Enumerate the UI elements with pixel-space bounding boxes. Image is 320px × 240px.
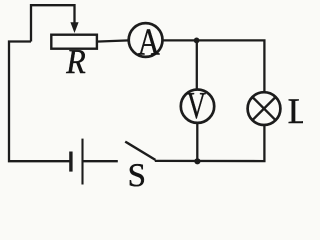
wire voltmeter top lead <box>196 40 198 89</box>
wiper arrow of rheostat R <box>70 22 78 33</box>
battery negative plate (short thick) <box>69 152 72 172</box>
svg-text:A: A <box>138 22 161 64</box>
wire switch to bottom-right corner and up to lamp <box>155 125 265 161</box>
svg-text:V: V <box>187 85 207 127</box>
battery positive plate (long thin) <box>81 139 83 185</box>
voltmeter V <box>181 90 214 123</box>
svg-text:L: L <box>288 91 303 131</box>
wire battery to switch contact <box>84 160 118 162</box>
ammeter A <box>129 23 163 57</box>
wire wiper arm (left branch up and over to rheostat slider) <box>31 5 75 41</box>
svg-text:R: R <box>65 42 85 81</box>
wire rheostat to ammeter <box>96 40 129 41</box>
junction node top (voltmeter tap) <box>194 38 200 44</box>
lamp L <box>248 92 281 125</box>
wire voltmeter bottom lead <box>196 123 198 161</box>
resistor (rheostat) R body <box>51 35 97 49</box>
wire left side: wiper step, left vertical, bottom-left to battery <box>9 42 70 162</box>
switch S blade (open) <box>125 142 155 160</box>
svg-text:S: S <box>128 158 146 191</box>
junction node bottom (voltmeter tap) <box>194 158 200 164</box>
wire ammeter to top-right corner and down to lamp <box>163 40 265 92</box>
